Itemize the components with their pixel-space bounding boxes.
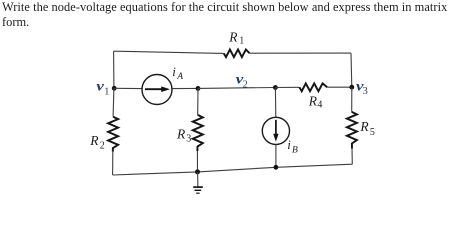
resistor R3 xyxy=(176,115,203,151)
wire bottom rail xyxy=(113,164,353,175)
node b junction dot (top of iB) xyxy=(273,85,278,90)
svg-text:3: 3 xyxy=(363,86,368,97)
wire node b to R4 xyxy=(275,86,299,88)
wire node a to R3 xyxy=(197,88,199,115)
node v1 label xyxy=(96,79,109,98)
wire node b to iB xyxy=(274,88,276,118)
wire top from left corner to R1 xyxy=(114,51,224,53)
wire right vertical upper xyxy=(350,53,353,87)
wire v1 to iA xyxy=(114,87,141,89)
resistor R4 xyxy=(299,83,327,110)
svg-text:R: R xyxy=(308,94,318,109)
svg-text:5: 5 xyxy=(370,127,375,138)
current source iA xyxy=(142,64,183,105)
wire iB to bottom junction xyxy=(275,145,277,168)
svg-text:R: R xyxy=(359,119,369,134)
svg-text:1: 1 xyxy=(104,87,109,98)
ground junction dot xyxy=(195,169,200,174)
node v2 label xyxy=(236,72,248,91)
wire node a to node b (v2 segment) xyxy=(198,87,275,90)
svg-text:A: A xyxy=(176,72,183,82)
node v3 junction dot xyxy=(349,85,354,90)
svg-text:i: i xyxy=(287,137,291,152)
wire v3 to R5 xyxy=(351,87,353,112)
current source iB xyxy=(262,117,298,155)
junction dot at iB bottom xyxy=(274,165,279,170)
resistor R1 xyxy=(224,29,250,57)
svg-text:2: 2 xyxy=(243,80,248,91)
node a junction dot (top of R3) xyxy=(196,86,201,91)
wire R3 to bottom junction xyxy=(196,151,198,172)
svg-text:B: B xyxy=(292,145,298,155)
svg-text:R: R xyxy=(176,126,186,141)
node v1 junction dot xyxy=(112,86,117,91)
wire left vertical upper xyxy=(113,51,115,88)
wire R2 to bottom-left corner xyxy=(112,152,114,175)
ground xyxy=(193,172,203,193)
wire top from R1 to right corner xyxy=(250,52,352,54)
svg-text:R: R xyxy=(228,29,238,44)
svg-text:v: v xyxy=(96,79,104,94)
problem statement line 2 xyxy=(2,15,29,30)
problem statement line 1 xyxy=(2,0,447,15)
wire iA to node a xyxy=(171,87,198,89)
svg-text:2: 2 xyxy=(100,141,105,152)
svg-text:1: 1 xyxy=(239,36,244,47)
wire v1 to R2 xyxy=(112,88,115,116)
svg-text:i: i xyxy=(172,64,176,79)
svg-text:R: R xyxy=(89,133,99,148)
svg-text:4: 4 xyxy=(317,100,322,111)
resistor R5 xyxy=(347,112,375,149)
wire R4 to v3 xyxy=(327,86,352,88)
resistor R2 xyxy=(89,117,118,152)
svg-text:3: 3 xyxy=(186,134,191,145)
node v3 label xyxy=(356,79,368,97)
wire R5 to bottom-right corner xyxy=(351,149,353,165)
